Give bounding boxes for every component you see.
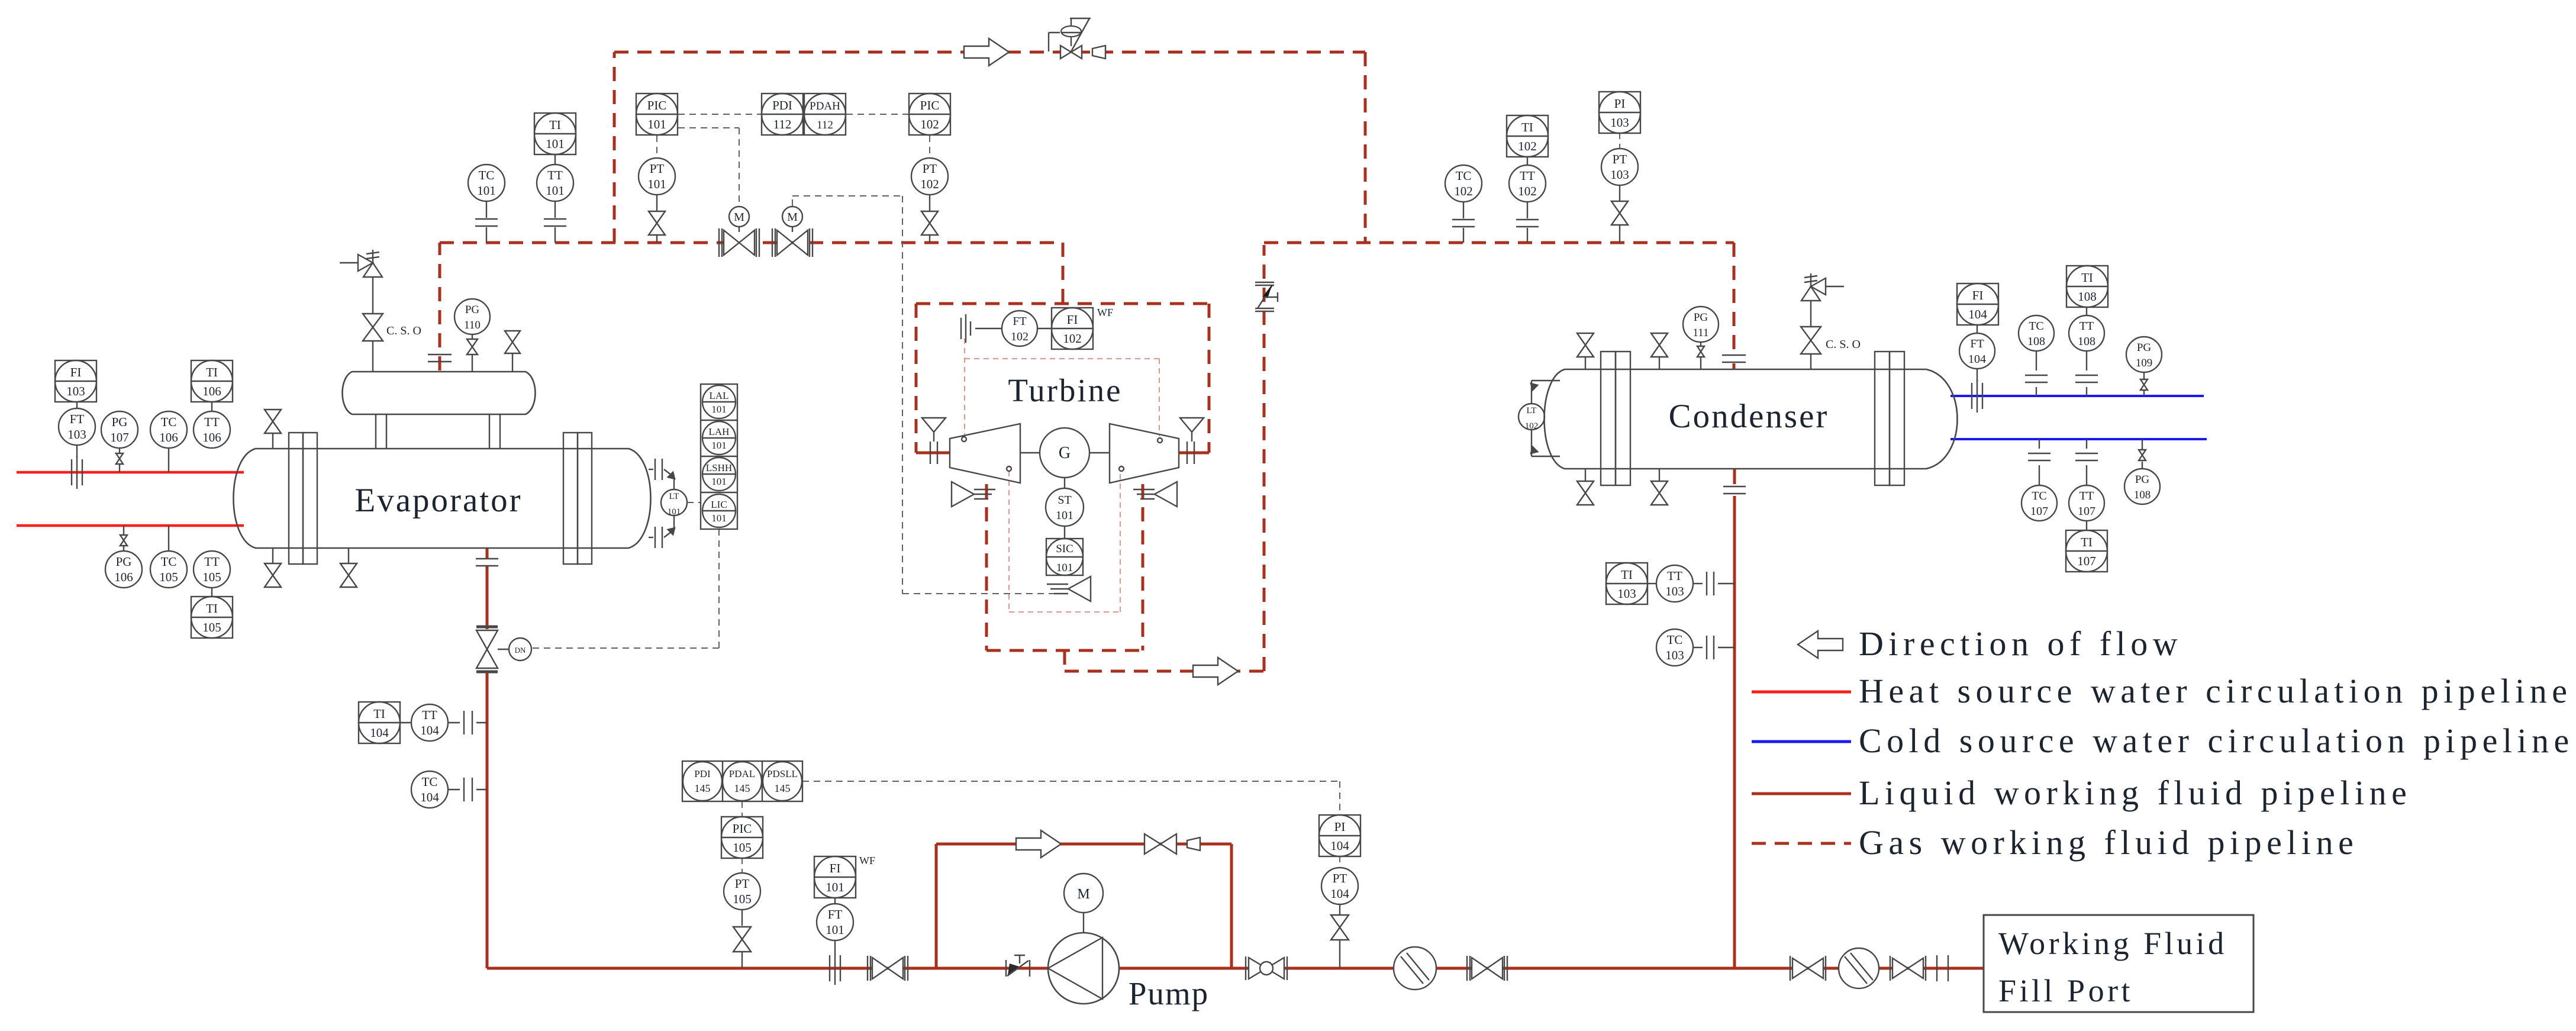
svg-text:102: 102 [920,117,939,131]
speed controller SIC-101 [1046,526,1083,575]
svg-text:107: 107 [110,430,129,444]
wire: condenser drain to bottom run [1733,496,1736,968]
pressure transmitter PT-101 [639,158,675,211]
wire: turbine supply box right edge [1208,304,1211,453]
pipeline: heat source water return (red) from evaporator [17,524,244,527]
thermocouple TC-108 [2019,315,2054,396]
svg-text:TC: TC [422,775,438,789]
svg-text:PG: PG [465,304,480,316]
svg-text:FI: FI [830,861,841,875]
svg-text:103: 103 [1665,584,1684,598]
wire: turbine exhaust left downcomer [985,484,988,650]
tap TT-104 [464,711,472,734]
svg-text:TT: TT [1520,169,1535,183]
svg-text:FT: FT [1970,337,1984,350]
svg-text:ST: ST [1058,494,1071,507]
svg-text:102: 102 [920,177,939,191]
legend: gas working fluid text [1859,823,2358,862]
condenser label [1669,398,1829,435]
temperature transmitter TT-107 [2069,439,2104,531]
condenser left flange pair [1601,352,1630,485]
gauge valve above PG-108 [2139,439,2146,460]
pressure gauge PG-109 [2126,337,2162,379]
discharge isolation valve [1467,956,1507,981]
motor operator M1 [729,207,749,232]
flow transmitter FT-103 [59,402,95,457]
svg-text:PG: PG [116,555,132,569]
svg-text:104: 104 [370,726,389,740]
wire: level valve to pump suction run [486,671,489,968]
tap TC-107 [2028,453,2051,460]
wire: evaporator bottom drain stub [486,548,489,559]
wire: signal PIC-101 to motor valve M1 [678,128,739,206]
svg-text:106: 106 [202,384,221,398]
svg-text:145: 145 [775,782,791,794]
flow indicator FI-104 [1957,283,1998,325]
pipeline: cold source water outlet (blue) from condenser top [1950,395,2204,397]
tap TT-108 [2075,375,2098,382]
svg-text:104: 104 [1968,307,1987,321]
pressure safety valve PSV (evaporator, C.S.O) [340,250,382,314]
svg-text:TT: TT [422,708,437,722]
gauge valve under PG-111 [1697,346,1704,369]
pressure controller PIC-101 [636,94,678,135]
svg-text:M: M [734,211,744,224]
level alarm/controller stack LAL/LAH/LSHH/LIC-101 [701,384,737,529]
svg-text:PT: PT [1333,871,1347,885]
vent funnel above right inlet [1180,418,1204,442]
svg-text:104: 104 [420,790,439,804]
svg-text:PDI: PDI [772,98,792,112]
tap TC-104 [464,778,472,801]
svg-text:101: 101 [477,183,496,198]
drain funnel left outlet [952,482,995,507]
svg-text:TT: TT [2080,320,2094,333]
svg-text:PDAH: PDAH [810,100,840,112]
wire: signal PIC-102 to PT-102 [929,136,930,157]
flow arrow on bypass top run [964,38,1009,66]
svg-text:PT: PT [735,877,750,891]
svg-text:101: 101 [647,177,666,191]
legend: liquid working fluid sample line [1752,792,1851,795]
svg-text:PIC: PIC [733,821,752,836]
svg-text:104: 104 [1330,887,1349,901]
bypass pressure control valve PCV [1049,18,1091,59]
legend: liquid working fluid text [1859,774,2411,812]
temperature transmitter TT-105 [194,551,230,597]
svg-text:FT: FT [70,412,85,426]
condenser vent valve top-left [1577,333,1594,369]
legend: heat source text [1859,672,2572,710]
wire: pump bypass left riser [935,844,938,968]
diff pressure alarm PDAH-112 [804,94,846,135]
svg-text:145: 145 [734,782,750,794]
pump suction check valve [1006,955,1030,977]
label WF (FI-101) [859,855,875,866]
svg-text:105: 105 [202,620,221,634]
svg-text:TC: TC [1456,169,1472,183]
speed transmitter ST-101 [1046,478,1084,526]
wire: turbine supply box top edge [916,302,1209,305]
orifice taps FT-104 [1972,379,1982,413]
evaporator drain valve (shell bottom left) [265,548,281,587]
svg-text:101: 101 [711,404,727,415]
wire: exhaust riser to condenser header [1263,245,1266,671]
pump suction isolation valve [868,956,908,981]
svg-text:FI: FI [1972,288,1984,302]
level transmitter LT-102 [1518,404,1545,431]
vent funnel below SIC-101 [1047,576,1091,601]
svg-text:110: 110 [464,319,481,331]
differential pressure indicator PDI-112 [762,94,803,135]
evaporator vessel shell [234,449,651,548]
svg-text:105: 105 [733,840,752,855]
wire: impulse line turbine top ports header [965,359,1159,436]
level tap lower nozzle [649,515,675,548]
tap on evaporator drain [476,559,498,566]
thermocouple TC-106 [150,411,187,472]
svg-text:SIC: SIC [1056,543,1073,555]
level control valve LV-101 [476,627,509,672]
svg-text:FI: FI [70,365,82,379]
svg-text:101: 101 [546,137,565,151]
wire: signal PIC-101 to PDI-112 [678,114,761,115]
tap TT-103 [1707,572,1714,595]
legend: direction of flow text [1859,624,2182,663]
svg-text:102: 102 [1518,139,1537,153]
svg-text:TC: TC [161,555,177,569]
root valve PT-103 [1611,201,1628,243]
wire: gas stub to condenser shell [1733,363,1736,369]
wire: gas drop into condenser [1733,243,1736,354]
gauge valve under PG-109 [2140,379,2148,396]
wire: signal PDSLL-145 row to PI-104 [802,781,1340,816]
evaporator steam drum [343,372,536,414]
svg-text:TT: TT [204,415,220,429]
svg-text:107: 107 [2078,505,2095,518]
vent funnel above left inlet [922,418,946,442]
svg-text:107: 107 [2030,505,2048,518]
svg-text:101: 101 [546,183,565,198]
legend: gas working fluid sample line [1752,842,1851,845]
condenser right flange pair [1875,352,1904,485]
svg-text:Direction of flow: Direction of flow [1859,624,2182,663]
evaporator left flange pair [289,433,317,564]
legend: cold source sample line [1752,740,1851,743]
legend: direction of flow arrow [1798,631,1843,658]
svg-text:108: 108 [2027,335,2045,348]
tap on condenser gas inlet [1722,355,1746,362]
pressure gauge PG-111 [1683,307,1719,346]
svg-text:PI: PI [1334,820,1346,834]
wire: bypass downcomer (right vertical of top loop) [1364,52,1367,243]
label WF (FI-102) [1097,307,1113,318]
fill port valve 1 [1790,956,1826,981]
thermocouple TC-105 [150,526,187,588]
turbine instrumentation port circles [962,437,1162,471]
fill port connection tap [1937,955,1948,981]
valve positioner bubble [509,638,531,661]
temperature indicator TI-102 [1507,115,1548,157]
wire: signal PI-104 to PT-104 [1339,856,1340,867]
svg-text:101: 101 [647,117,666,131]
wire: turbine supply box left edge [915,304,918,453]
temperature indicator TI-108 [2066,266,2108,307]
pump P-101 [1048,933,1119,1004]
pressure transmitter PT-103 [1601,149,1638,201]
level tap upper nozzle [649,459,675,489]
pressure indicator PI-104 [1319,815,1360,856]
wire: bypass top run [614,51,1365,54]
thermocouple TC-102 [1445,165,1482,243]
svg-text:LAH: LAH [709,426,730,437]
tap on condenser drain [1723,486,1746,494]
root valve PT-105 [733,927,751,968]
svg-text:101: 101 [826,880,844,894]
wire: signal PIC-105 to PT-105 [741,858,743,872]
svg-text:103: 103 [1665,648,1684,662]
wire: pump suction / discharge bottom run [487,967,1734,970]
pressure controller PIC-105 [721,817,763,858]
svg-text:104: 104 [420,723,439,737]
svg-text:LAL: LAL [709,390,728,401]
svg-text:Turbine: Turbine [1008,372,1122,408]
svg-text:108: 108 [2078,335,2095,348]
wire: gas drop into turbine supply box [1062,243,1065,304]
pressure transmitter PT-105 [724,873,760,926]
svg-text:105: 105 [733,892,752,906]
svg-text:103: 103 [1610,115,1629,130]
svg-text:145: 145 [695,782,711,794]
temperature transmitter TT-101 [537,154,573,243]
wire: impulse line turbine drains loop [1009,471,1120,612]
pressure gauge PG-110 [454,299,490,339]
flow arrow on pump bypass [1016,830,1061,858]
fill port strainer [1839,948,1879,988]
flow indicator FI-102 [1052,308,1093,349]
working fluid fill port box [1984,915,2253,1012]
turbine LP casing (right trapezoid) [1110,424,1179,483]
svg-text:TT: TT [204,555,220,569]
svg-text:Evaporator: Evaporator [354,482,522,519]
svg-text:101: 101 [711,476,727,487]
drain funnel right outlet [1133,482,1177,507]
thermocouple TC-107 [2022,439,2057,521]
svg-text:PI: PI [1614,96,1626,111]
differential pressure switch row PDI/PDAL/PDSLL-145 [682,761,802,801]
pipeline: heat source water supply (red) into evaporator [17,471,244,474]
gauge valve above PG-106 [120,526,127,546]
tap TT-102 [1516,220,1539,227]
pressure safety valve PSV (condenser, C.S.O) [1801,273,1844,327]
svg-text:TI: TI [2081,535,2093,549]
wire: gas header to condenser (horizontal) [1264,241,1734,244]
motor operator M2 [782,207,802,232]
svg-text:TI: TI [1521,120,1533,134]
orifice taps FT-101 [830,952,840,985]
svg-text:M: M [787,211,798,224]
wire: condenser drain stub [1733,469,1736,484]
tap TC-102 [1452,220,1475,227]
root valve PT-104 [1331,915,1349,968]
turbine inlet tap left [930,442,937,464]
legend: cold source text [1859,721,2574,760]
pump discharge ball valve [1246,956,1287,980]
svg-text:106: 106 [159,430,178,444]
pressure gauge PG-107 [101,411,138,453]
temperature transmitter TT-104 [411,704,487,741]
svg-text:112: 112 [817,119,833,131]
temperature indicator TI-105 [191,597,233,638]
evaporator drain valve (shell bottom mid) [340,548,357,587]
svg-text:TI: TI [2081,270,2093,285]
svg-text:106: 106 [202,430,221,444]
pump bypass valve [1144,834,1176,854]
svg-text:103: 103 [1617,587,1636,601]
wire: signal LIC-101 to level control valve [532,529,719,648]
pressure transmitter PT-104 [1321,868,1358,915]
svg-text:105: 105 [159,570,178,584]
svg-text:C. S. O: C. S. O [386,324,421,337]
svg-text:WF: WF [1097,307,1113,318]
svg-text:TT: TT [547,168,563,182]
flow transmitter FT-104 [1959,325,1995,382]
flow arrowhead after PCV [1092,46,1105,59]
svg-text:102: 102 [1454,184,1473,198]
temperature transmitter TT-106 [194,402,230,448]
temperature transmitter TT-108 [2069,307,2104,396]
svg-text:FT: FT [1013,315,1026,328]
wire: exhaust manifold drop [1063,650,1066,671]
svg-text:Fill Port: Fill Port [1998,973,2133,1009]
svg-text:PG: PG [2135,473,2150,486]
wire: bypass riser (left vertical of top loop) [613,52,616,243]
wire: signal PDAH-112 to PIC-102 [846,114,908,115]
svg-text:Heat source water circulation: Heat source water circulation pipeline [1859,672,2572,710]
evaporator right flange pair [563,433,592,564]
evaporator vent valve (shell top left) [265,410,281,449]
svg-text:102: 102 [1063,331,1082,346]
generator G [1020,428,1110,478]
tap TC-101 [475,219,498,226]
pressure controller PIC-102 [909,94,950,135]
svg-text:111: 111 [1692,327,1708,339]
svg-text:TI: TI [549,118,561,132]
svg-text:104: 104 [1968,353,1986,366]
svg-text:101: 101 [711,440,727,451]
flow arrow on exhaust run [1193,658,1238,685]
svg-text:LT: LT [669,492,679,501]
flow transmitter FT-102 [975,311,1052,346]
svg-text:TI: TI [373,707,385,721]
level tap upper (condenser) [1530,381,1560,404]
condenser vessel shell [1545,369,1958,469]
svg-text:101: 101 [826,923,844,937]
svg-text:TC: TC [2029,320,2044,333]
legend: heat source sample line [1752,691,1851,694]
svg-text:107: 107 [2077,554,2096,568]
tap TC-108 [2025,375,2048,382]
temperature indicator TI-107 [2066,530,2107,572]
flow arrowhead on bypass [1187,837,1200,850]
isolation valve below condenser PSV [1801,327,1821,369]
level transmitter LT-101 [661,489,687,517]
turbine label [1008,372,1122,408]
tap on drum gas line [428,355,452,362]
thermocouple TC-103 [1656,629,1734,666]
wire: turbine inlet stub left (liquid red) [916,452,950,455]
svg-text:106: 106 [114,570,133,584]
wire: exhaust run to riser [1065,670,1264,673]
svg-text:TC: TC [1667,633,1683,647]
svg-text:DN: DN [515,646,526,655]
wire: turbine exhaust manifold [986,649,1143,652]
temperature indicator TI-101 [534,113,576,154]
svg-text:PT: PT [1613,152,1627,166]
wire: run to working fluid fill port [1734,967,1984,970]
svg-text:TI: TI [206,365,218,379]
svg-text:FI: FI [1067,312,1078,327]
temperature transmitter TT-102 [1509,157,1546,243]
svg-text:Cold source water circulation: Cold source water circulation pipeline [1859,721,2574,760]
condenser drain valve bottom-mid [1651,469,1668,505]
temperature indicator TI-106 [191,360,233,402]
thermocouple TC-104 [411,771,487,808]
orifice taps FT-102 [961,314,971,343]
svg-text:PG: PG [112,415,128,429]
svg-text:TI: TI [206,601,218,616]
temperature transmitter TT-103 [1656,565,1734,602]
spectacle blind on exhaust riser [1255,282,1278,311]
root valve PT-102 [921,211,938,243]
svg-text:PG: PG [1694,311,1708,324]
svg-text:101: 101 [1056,562,1073,574]
svg-text:103: 103 [67,427,86,442]
orifice taps FT-103 [72,456,82,489]
wire: turbine exhaust right downcomer [1142,484,1144,650]
pump label [1129,975,1209,1011]
wire: signal PIC-101 to PT-101 [656,136,657,157]
svg-text:M: M [1077,887,1089,902]
condenser vent valve top-mid [1651,333,1668,369]
discharge strainer [1394,947,1436,990]
svg-text:101: 101 [668,507,681,517]
svg-text:LIC: LIC [711,499,727,510]
thermocouple TC-101 [468,165,505,243]
pressure indicator PI-103 [1599,92,1640,133]
evaporator label [354,482,522,519]
flow transmitter FT-101 [817,897,853,952]
gauge valve under PG-107 [116,453,123,472]
svg-text:WF: WF [859,855,875,866]
svg-text:Pump: Pump [1129,975,1209,1011]
isolation valve below PSV (C.S.O) [363,314,383,372]
svg-text:LSHH: LSHH [706,462,732,473]
wire: evaporator drain to level valve [486,566,489,629]
tap TT-101 [544,219,566,226]
svg-text:PDI: PDI [694,768,711,779]
turbine HP casing (left trapezoid) [950,424,1020,483]
svg-text:TC: TC [161,415,177,429]
svg-text:G: G [1059,444,1071,462]
pressure gauge PG-108 [2124,462,2160,504]
wire: pump bypass top run [936,843,1231,846]
svg-text:103: 103 [1610,167,1629,182]
svg-text:TT: TT [2080,489,2094,502]
svg-text:104: 104 [1330,839,1349,853]
wire: pump bypass right drop [1230,844,1233,968]
flow indicator FI-103 [55,360,96,402]
